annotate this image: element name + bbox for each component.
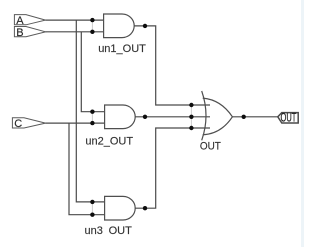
pin connector line un2: [91, 112, 93, 123]
wire net A horizontal: [46, 19, 104, 21]
wire OR output: [232, 116, 277, 118]
frame edge (faint vertical): [301, 0, 304, 247]
junction dot B-un1 pin: [90, 30, 94, 34]
junction dot C-un2 pin: [90, 121, 94, 125]
or-gate OUT body: [203, 98, 233, 135]
junction dot OR input 2: [189, 115, 193, 119]
svg-text:B: B: [16, 27, 23, 39]
svg-text:un3: un3: [85, 225, 103, 237]
svg-text:OUT: OUT: [200, 141, 221, 153]
junction dot OR input 3: [189, 126, 193, 130]
wire un3 output to OR input 3: [135, 128, 210, 208]
svg-text:un2_OUT: un2_OUT: [85, 135, 133, 147]
input port A: [14, 15, 45, 25]
input port B: [14, 27, 45, 37]
AND gate un3: [105, 196, 136, 220]
wire un2 output to OR input 2: [135, 116, 210, 118]
wire net B horizontal: [46, 31, 104, 33]
pin connector line OR gate: [190, 105, 192, 128]
wire net A vertical branch to un3: [76, 20, 104, 202]
junction dot un1 output: [143, 24, 147, 28]
output port OUT: [278, 113, 298, 123]
svg-text:un1_OUT: un1_OUT: [98, 43, 146, 55]
svg-text:OUT: OUT: [281, 113, 297, 125]
junction dot OR output: [242, 115, 246, 119]
junction dot A-un1 pin: [90, 18, 94, 22]
junction dot un3 output: [143, 206, 147, 210]
pin connector line un3: [91, 202, 93, 215]
wire net C vertical branch to un3: [69, 123, 105, 215]
svg-text:A: A: [16, 15, 24, 27]
junction dot C-un3 pin: [90, 213, 94, 217]
or-gate OUT back arc: [202, 91, 206, 140]
input port C: [12, 118, 45, 128]
junction dot A-un3 pin: [90, 200, 94, 204]
AND gate un1: [104, 14, 135, 38]
wire net B vertical branch to un2: [81, 32, 104, 112]
junction dot un2 output: [143, 115, 147, 119]
svg-text:OUT: OUT: [109, 225, 133, 237]
junction dot B-un2 pin: [90, 110, 94, 114]
AND gate un2: [105, 105, 136, 129]
pin connector line un1: [91, 20, 93, 32]
wire net C horizontal: [46, 122, 105, 124]
wire un1 output to OR input 1: [134, 26, 210, 105]
svg-text:C: C: [14, 118, 22, 130]
junction dot OR input 1: [189, 103, 193, 107]
